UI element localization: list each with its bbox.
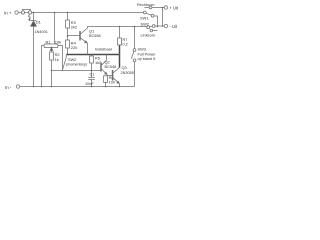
transistor Q2 BC548 <box>101 59 116 74</box>
svg-text:C1: C1 <box>90 72 95 76</box>
svg-text:- Uit: - Uit <box>169 24 178 29</box>
switch SW3 full power <box>131 27 156 87</box>
svg-text:220: 220 <box>71 45 78 50</box>
wire right link vertical <box>162 8 164 27</box>
svg-text:2N3055: 2N3055 <box>121 71 134 75</box>
wire mid bus y70 <box>52 70 101 72</box>
transistor Q1 BC558 <box>80 28 101 43</box>
svg-text:op stand 5: op stand 5 <box>138 57 156 61</box>
svg-text:Instelbaar: Instelbaar <box>95 47 113 52</box>
transistor Q3 2N3055 <box>113 65 134 83</box>
svg-text:Q1: Q1 <box>89 29 94 34</box>
junction dots <box>33 7 164 88</box>
svg-text:0,2: 0,2 <box>123 43 128 47</box>
switch S input pushbutton <box>21 9 31 20</box>
wire Q1 emitter down <box>87 43 89 55</box>
capacitor C1 10nF <box>85 71 95 87</box>
wire Q2 collector up <box>106 55 108 61</box>
wire Q1 collector to y27 rail <box>88 27 148 29</box>
svg-text:D1: D1 <box>36 19 42 24</box>
svg-text:(momentary): (momentary) <box>66 63 87 67</box>
switch SW2b linksom <box>141 21 165 37</box>
switch SW1 top <box>140 11 158 26</box>
resistor R2 1k <box>50 52 60 62</box>
svg-text:In -: In - <box>5 85 12 90</box>
svg-text:Q2: Q2 <box>105 59 110 64</box>
svg-text:In +: In + <box>4 10 12 15</box>
resistor R5 1k0 <box>90 55 103 71</box>
resistor R3 2k2 <box>66 20 78 30</box>
svg-text:Linksom: Linksom <box>141 32 156 37</box>
wire mid bus y54 <box>67 54 120 56</box>
svg-text:+ Uit: + Uit <box>169 5 179 10</box>
svg-text:BC558: BC558 <box>89 34 101 38</box>
node Rechtsom terminal <box>137 2 164 9</box>
svg-text:SW3: SW3 <box>138 47 146 52</box>
node +Uit terminal <box>164 5 179 10</box>
switch SW2 momentary <box>63 55 87 70</box>
svg-text:SW2: SW2 <box>68 57 76 62</box>
wire Q1 base <box>68 35 80 37</box>
wire bottom rail <box>20 86 135 88</box>
wire Q3 collector up <box>119 45 121 68</box>
wire D1 branch <box>33 13 35 87</box>
svg-text:BC548: BC548 <box>105 65 117 69</box>
wire top rail <box>18 12 144 14</box>
wire R3 R4 branch <box>67 13 69 55</box>
wire pot top branch <box>54 13 56 45</box>
svg-text:100: 100 <box>109 80 115 84</box>
svg-text:10nF: 10nF <box>85 82 94 86</box>
node In+ terminal <box>4 10 18 15</box>
node -Uit terminal <box>164 24 178 29</box>
resistor R6 100 <box>104 76 115 87</box>
svg-text:Q3: Q3 <box>122 65 127 70</box>
diode D1 1N4001 <box>31 19 48 33</box>
svg-text:R7: R7 <box>123 38 128 42</box>
svg-text:1N4001: 1N4001 <box>35 30 48 34</box>
potentiometer R1 10k <box>42 40 63 87</box>
wire R2 to bottom rail <box>51 60 53 87</box>
resistor R7 0,2 <box>118 27 128 47</box>
node In- terminal <box>5 85 20 90</box>
resistor R4 220 <box>66 40 79 50</box>
wire Q2 emitter to Q3 base <box>107 74 112 75</box>
svg-text:Rechtsom: Rechtsom <box>137 2 155 7</box>
svg-text:Full Power: Full Power <box>138 52 157 56</box>
svg-text:1k: 1k <box>55 57 59 62</box>
wire Q3 emitter down <box>119 83 121 86</box>
svg-text:SW1: SW1 <box>140 16 148 21</box>
svg-text:2k2: 2k2 <box>71 24 77 29</box>
